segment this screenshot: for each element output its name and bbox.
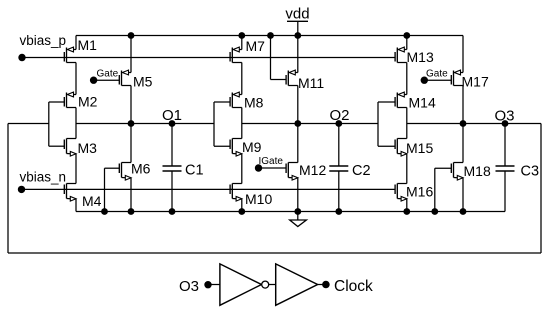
terminal vbias_n [18,170,66,194]
transistor M6 (NMOS) [119,161,150,181]
wire node O3 line [407,123,541,125]
wire M11 gate to vdd rail [271,36,287,80]
svg-text:O2: O2 [330,107,350,124]
junction C1 / node O1 [169,120,176,127]
wire O3 terminal to inverter U1 [212,284,220,286]
junction M11 gate / vdd rail [267,32,274,39]
svg-text:M8: M8 [244,95,264,111]
svg-text:Gate: Gate [426,68,448,79]
wire stage2 source of top PMOS to vdd rail [241,36,243,50]
wire Gate input to M17 gate [424,79,451,81]
terminal O3 (buffer input) [179,278,212,295]
wire O3 feedback left rise [7,124,9,254]
transistor M3 (NMOS) [64,139,97,157]
svg-text:vbias_n: vbias_n [20,170,67,185]
wire IGate input to M12 gate [259,167,287,169]
svg-text:M16: M16 [406,184,433,200]
svg-text:M1: M1 [78,37,98,53]
wire stage2 enable NMOS drain to output node [297,124,299,163]
wire Gate input to M5 gate [94,79,120,81]
wire stage1 source of top PMOS to vdd rail [75,36,77,50]
junction C3 / node O3 [502,120,509,127]
svg-text:M17: M17 [462,74,489,90]
transistor M10 (NMOS) [230,184,272,208]
wire stage3 source of top PMOS to vdd rail [406,36,408,50]
svg-text:M14: M14 [409,95,436,111]
svg-text:M9: M9 [242,139,262,155]
capacitor C1 [163,124,204,212]
svg-text:M5: M5 [133,74,153,90]
transistor M12 (NMOS) [286,162,326,180]
junction M10 source / ground rail [238,208,245,215]
junction M12 source / ground rail [294,208,301,215]
transistor M1 (PMOS) [64,37,97,63]
wire stage2 gate bracket [214,102,230,146]
inverter U2 [276,264,318,305]
wire stage1 enable NMOS drain to output node [130,124,132,163]
wire stage1 enable NMOS source to ground rail [130,178,132,212]
ground symbol [290,212,307,227]
transistor M15 (NMOS) [395,139,433,157]
junction M16 source / ground rail [403,208,410,215]
wire stage3 enable NMOS source to ground rail [462,178,464,212]
vdd supply symbol [285,5,309,35]
junction M18 source / ground rail [460,208,467,215]
wire vbias_p bus [22,57,395,59]
capacitor C3 [496,124,540,212]
wire inverter U1 to inverter U2 [269,284,276,286]
junction M6 gate / ground rail [101,208,108,215]
junction M5 source / vdd rail [128,32,135,39]
terminal Clock [322,278,373,295]
transistor M4 (NMOS) [64,184,101,210]
wire stage3 bottom NMOS source to ground rail [406,199,408,212]
wire stage1 NMOS drain to output node [75,124,77,139]
transistor M7 (PMOS) [230,38,265,63]
svg-text:M6: M6 [131,161,151,177]
svg-text:C1: C1 [185,163,204,179]
svg-text:Clock: Clock [334,278,373,295]
terminal Gate (M17) [421,68,449,84]
transistor M14 (PMOS) [395,92,436,110]
wire stage2 bottom NMOS source to ground rail [241,199,243,212]
wire stage1 bottom NMOS source to ground rail [75,199,77,212]
wire stage3 cascode PMOS connection [406,63,408,95]
wire stage3 cascode NMOS connection [406,154,408,184]
wire stage3 gate bracket [378,102,395,146]
wire stage1 enable PMOS source to vdd rail [130,36,132,73]
transistor M8 (PMOS) [230,92,264,110]
junction M5-M6 drains / node O1 [128,120,135,127]
wire M18 gate to ground rail [435,168,452,211]
junction C2 / ground rail [335,208,342,215]
wire stage2 PMOS drain to output node [241,108,243,124]
junction M13 source / vdd rail [403,32,410,39]
junction C1 / ground rail [169,208,176,215]
wire stage1 cascode PMOS connection [75,63,77,95]
svg-text:Gate: Gate [97,68,119,79]
junction M7 source / vdd rail [238,32,245,39]
svg-text:C3: C3 [521,164,540,180]
wire stage2 enable PMOS drain to output node [297,86,299,124]
transistor M5 (PMOS) [119,70,152,89]
wire stage2 cascode NMOS connection [241,154,243,184]
transistor M2 (PMOS) [64,92,97,109]
svg-text:M7: M7 [246,38,266,54]
wire node O2 line [242,123,378,125]
svg-text:O3: O3 [495,108,515,125]
junction C2 / node O2 [335,120,342,127]
wire stage3 enable PMOS source to vdd rail [462,36,464,73]
wire stage2 enable PMOS source to vdd rail [297,36,299,73]
wire ground bottom rail [76,211,505,213]
svg-text:O1: O1 [162,107,182,124]
capacitor C2 [329,124,370,212]
junction M18 gate / ground rail [431,208,438,215]
svg-text:M13: M13 [407,49,434,65]
wire stage1 input line [8,123,49,125]
wire inverter U2 to Clock terminal [318,284,326,286]
junction M11-M12 drains / node O2 [294,120,301,127]
inverter U1 output bubble [262,281,269,288]
wire stage3 enable NMOS drain to output node [462,124,464,163]
wire node O1 line [76,123,214,125]
transistor M13 (PMOS) [395,47,434,65]
transistor M16 (NMOS) [395,184,433,202]
wire stage3 NMOS drain to output node [406,124,408,139]
wire O3 feedback right drop [540,124,542,254]
terminal IGate (M12) [255,156,284,172]
wire stage1 PMOS drain to output node [75,108,77,124]
svg-text:M15: M15 [406,140,433,156]
wire stage2 enable NMOS source to ground rail [297,178,299,212]
transistor M18 (NMOS) [451,163,491,181]
terminal vbias_p [18,33,66,61]
wire stage3 enable PMOS drain to output node [462,86,464,124]
svg-text:IGate: IGate [259,156,284,167]
svg-text:M18: M18 [464,163,491,179]
junction M6 source / ground rail [128,208,135,215]
svg-text:vdd: vdd [285,5,309,22]
svg-text:M10: M10 [245,191,272,207]
wire O3 feedback bottom run [8,252,541,254]
wire vbias_n bus [22,188,396,190]
svg-text:O3: O3 [179,278,199,295]
transistor M17 (PMOS) [451,70,489,89]
wire vdd top rail [76,35,463,37]
svg-text:M4: M4 [82,193,102,209]
terminal Gate (M5) [90,68,119,84]
wire stage1 enable PMOS drain to output node [130,86,132,124]
wire stage2 NMOS drain to output node [241,124,243,139]
junction M17-M18 drains / node O3 [460,120,467,127]
svg-text:M2: M2 [78,94,98,110]
transistor M9 (NMOS) [230,139,262,157]
wire stage2 cascode PMOS connection [241,63,243,95]
svg-text:M12: M12 [299,162,326,178]
svg-text:M11: M11 [298,75,324,91]
svg-text:C2: C2 [352,163,371,179]
wire M6 gate to ground rail [105,168,120,211]
wire stage3 PMOS drain to output node [406,108,408,124]
wire stage1 cascode NMOS connection [75,154,77,184]
inverter U1 [220,264,262,305]
svg-text:vbias_p: vbias_p [20,33,67,48]
transistor M11 (PMOS) [286,70,324,91]
junction vdd stub / rail [294,32,301,39]
svg-text:M3: M3 [78,140,98,156]
wire stage1 gate bracket [49,102,65,146]
